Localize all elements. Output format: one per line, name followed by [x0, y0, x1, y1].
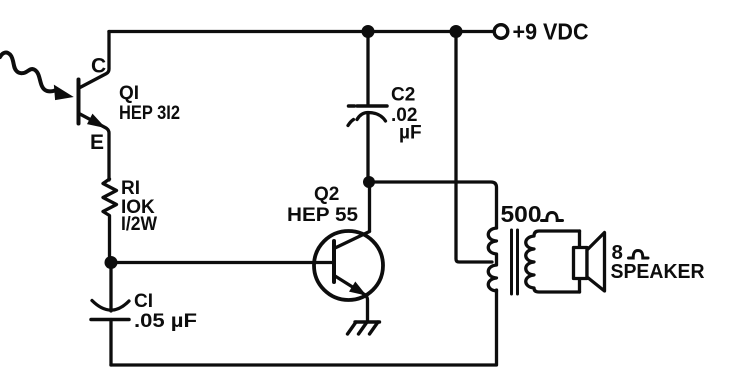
svg-text:Q2: Q2	[314, 184, 339, 205]
svg-text:+9 VDC: +9 VDC	[513, 19, 589, 45]
svg-text:C: C	[91, 55, 106, 78]
svg-text:RI: RI	[121, 178, 140, 199]
svg-text:I/2W: I/2W	[121, 214, 157, 235]
svg-text:µF: µF	[399, 123, 422, 144]
svg-text:HEP 3I2: HEP 3I2	[119, 103, 180, 124]
svg-text:500: 500	[501, 201, 542, 227]
svg-text:QI: QI	[119, 83, 139, 104]
svg-text:E: E	[90, 131, 104, 154]
svg-text:CI: CI	[134, 291, 153, 312]
svg-text:SPEAKER: SPEAKER	[611, 260, 705, 283]
svg-text:.05 µF: .05 µF	[134, 311, 197, 332]
svg-text:HEP 55: HEP 55	[287, 205, 358, 226]
svg-text:C2: C2	[391, 85, 415, 106]
